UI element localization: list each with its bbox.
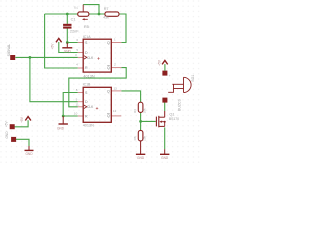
svg-text:D: D: [85, 100, 88, 104]
pin D IC1A: [78, 52, 83, 54]
ground symbol at C1/S node: [62, 43, 72, 54]
resistor R8: [138, 130, 143, 141]
wire left vertical from top corner down to R pin wire of IC1A: [45, 14, 78, 68]
wire C1 top link: [66, 14, 68, 24]
pad buzzer minus: [162, 98, 167, 103]
svg-text:+5V: +5V: [51, 43, 55, 50]
pin R IC1B: [78, 115, 83, 117]
wire C1 bottom to S pin node: [67, 28, 78, 42]
svg-text:22nF: 22nF: [70, 30, 79, 34]
pin CLK IC1A: [78, 56, 83, 58]
svg-text:R5: R5: [84, 25, 89, 29]
svg-text:10k: 10k: [143, 135, 147, 140]
pin S IC1A: [78, 42, 83, 44]
wire R4 wiper loop: [83, 5, 99, 14]
svg-text:R: R: [85, 114, 88, 118]
buzzer SG1 speaker symbol: [168, 77, 191, 92]
ground symbol power input: [25, 146, 34, 156]
pin D IC1B: [78, 101, 83, 103]
pin Qbar IC1A: [111, 67, 121, 69]
pad SIGNAL input: [10, 55, 15, 60]
resistor R7: [105, 12, 119, 16]
svg-text:GND: GND: [137, 156, 145, 160]
svg-text:SIGNAL: SIGNAL: [7, 44, 11, 57]
pin name Qbar IC1B: [107, 114, 110, 118]
wire top net from corner to trimmer R4: [45, 13, 78, 15]
pin CLK IC1B: [78, 106, 83, 108]
svg-text:13: 13: [114, 86, 118, 90]
svg-text:CLK: CLK: [87, 56, 94, 60]
origin cross IC1A: [97, 57, 99, 59]
junction node S/R ground net IC1B: [62, 115, 65, 118]
svg-text:IC1B: IC1B: [83, 83, 91, 87]
wire between R4 and R7: [89, 13, 105, 15]
pad buzzer plus: [162, 71, 167, 76]
clock wedge IC1A: [84, 56, 87, 59]
svg-text:4013N: 4013N: [83, 124, 94, 128]
svg-text:+5V: +5V: [5, 121, 9, 128]
svg-text:GND: GND: [57, 126, 65, 130]
wire Q IC1B to R6: [121, 91, 140, 102]
junction node wiper loop: [98, 13, 101, 16]
svg-text:4013N: 4013N: [83, 75, 94, 79]
svg-text:C1: C1: [71, 18, 76, 22]
svg-text:SG1: SG1: [191, 75, 195, 82]
wire buzzer pad to +5V arrow: [164, 64, 166, 71]
pad GND input: [11, 137, 16, 142]
svg-text:GND: GND: [25, 152, 33, 156]
pin S IC1B: [78, 92, 83, 94]
junction node SIGNAL: [29, 56, 32, 59]
wire GND input pad to ground symbol: [16, 139, 29, 146]
svg-text:Q: Q: [107, 114, 110, 118]
svg-text:BS170: BS170: [169, 117, 179, 121]
gate box IC1B 4013 flip-flop: [83, 87, 111, 122]
svg-text:Q: Q: [107, 66, 110, 70]
pin Q IC1B: [111, 90, 121, 92]
wire Qbar IC1A feedback to CLK IC1B: [69, 68, 126, 107]
junction node C1 bottom / S / GND: [66, 41, 69, 44]
svg-text:12: 12: [113, 109, 117, 113]
origin cross IC1B: [96, 107, 98, 109]
svg-text:10: 10: [74, 111, 78, 115]
wire R6 bottom to gate node: [141, 112, 156, 121]
ground symbol under Q1 source: [160, 149, 169, 160]
svg-text:R4: R4: [74, 6, 78, 10]
wire SIGNAL line to CLK IC1A: [15, 56, 77, 58]
svg-text:R8: R8: [133, 136, 137, 140]
pin Qbar IC1B unconnected: [111, 115, 121, 117]
wire S pin IC1B to ground node: [63, 93, 78, 117]
pad +5V input: [10, 124, 15, 129]
svg-text:GND: GND: [5, 131, 9, 139]
junction node top wire / C1: [66, 13, 69, 16]
wire +5V arrow to D pin IC1A: [59, 42, 78, 53]
pin R IC1A: [78, 67, 83, 69]
wire SIGNAL branch down to D pin IC1B: [30, 57, 78, 101]
wire R7 right to Q pin of IC1A: [119, 14, 126, 43]
svg-text:+5V: +5V: [20, 116, 24, 123]
supply symbol +5V power input: [25, 117, 31, 121]
svg-text:11: 11: [76, 103, 79, 107]
svg-text:BUZCS: BUZCS: [178, 98, 182, 111]
ground symbol at IC1B S/R node: [57, 116, 68, 130]
svg-text:GND: GND: [64, 50, 72, 54]
svg-text:R: R: [85, 66, 88, 70]
junction node gate R6/R8: [139, 120, 142, 123]
svg-text:IC1A: IC1A: [83, 35, 91, 39]
svg-text:+5V: +5V: [157, 59, 161, 66]
svg-text:Q: Q: [107, 89, 110, 93]
wire gate node down to R8: [140, 121, 142, 130]
wire source of Q1 to ground: [164, 127, 166, 149]
svg-text:D: D: [85, 51, 88, 55]
op-amp-style gate box IC1A 4013 flip-flop: [83, 39, 111, 72]
pin name Qbar IC1A: [107, 66, 110, 70]
wire +5V input pad to arrow: [14, 120, 28, 127]
svg-text:43k: 43k: [103, 16, 109, 20]
supply symbol +5V near C1: [56, 38, 62, 42]
resistor R6: [138, 102, 143, 112]
pin Q IC1A: [111, 42, 121, 44]
clock wedge IC1B: [84, 105, 87, 108]
supply symbol +5V buzzer: [162, 61, 168, 65]
svg-text:Q: Q: [107, 41, 110, 45]
svg-text:R7: R7: [104, 7, 109, 11]
ground symbol under R8: [136, 141, 145, 160]
svg-text:+: +: [169, 74, 171, 78]
svg-text:CLK: CLK: [87, 105, 94, 109]
capacitor C1: [63, 24, 71, 29]
transistor Q1 BS170 mosfet: [156, 111, 165, 127]
svg-text:R6: R6: [133, 109, 137, 113]
wire buzzer bottom pad to drain: [164, 102, 166, 111]
trimmer resistor R4: [78, 5, 89, 21]
svg-text:GND: GND: [161, 156, 169, 160]
svg-text:10k: 10k: [143, 108, 147, 113]
svg-text:Q1: Q1: [169, 112, 174, 116]
